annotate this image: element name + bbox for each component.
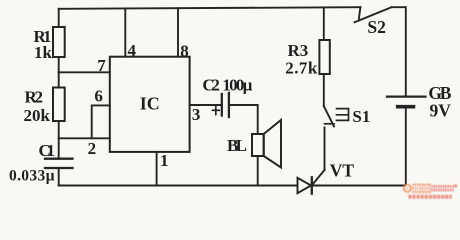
resistor R3 <box>319 7 329 106</box>
resistor R1 <box>53 9 65 73</box>
watermark bottom tiny line <box>408 195 452 199</box>
svg-text:2: 2 <box>88 139 97 158</box>
svg-text:VT: VT <box>330 160 355 180</box>
svg-text:R3: R3 <box>288 41 309 60</box>
svg-text:4: 4 <box>128 41 137 60</box>
watermark brand glyph white detail <box>413 184 431 193</box>
IC U1 box <box>110 57 190 152</box>
watermark brand glyph blob 1 <box>413 184 431 193</box>
wire: pin 7 net from R1/R2 junction to IC <box>59 71 110 73</box>
svg-text:C2: C2 <box>202 76 220 95</box>
wire: S2 to battery positive <box>392 7 406 95</box>
svg-text:S1: S1 <box>352 107 370 126</box>
svg-text:1: 1 <box>160 151 169 170</box>
resistor R2 <box>53 72 65 158</box>
svg-text:0.033µ: 0.033µ <box>9 167 55 184</box>
svg-text:100µ: 100µ <box>222 76 252 95</box>
battery GB <box>387 97 426 107</box>
watermark small red glyph white detail <box>431 185 453 191</box>
capacitor C1 <box>45 159 73 186</box>
switch S2 <box>355 7 392 22</box>
watermark small red glyphs <box>431 184 457 191</box>
svg-text:C1: C1 <box>39 141 56 160</box>
watermark logo circle <box>403 184 412 193</box>
wire: speaker to bottom rail <box>257 156 259 186</box>
thyristor VT <box>298 170 325 194</box>
svg-text:9V: 9V <box>430 101 452 121</box>
wire: pin 6 jumper down to pin 2 net <box>92 105 110 138</box>
wire: pin 4 from top rail <box>124 8 126 56</box>
speaker BL <box>252 120 281 168</box>
wire: pin 2 net from R2/C1 junction to IC <box>59 137 110 139</box>
wire: pin 3 to C2 <box>190 104 222 106</box>
svg-text:6: 6 <box>94 87 103 106</box>
svg-text:IC: IC <box>140 94 160 114</box>
svg-text:2.7k: 2.7k <box>285 58 318 77</box>
wire: bottom rail right from VT cathode to battery <box>312 185 406 187</box>
svg-text:7: 7 <box>97 56 106 75</box>
svg-text:20k: 20k <box>24 106 51 125</box>
wire: top rail from R1 top to S2 contact <box>59 7 361 9</box>
wire: C2 to speaker BL <box>229 105 258 134</box>
wire: pin 1 down to bottom rail <box>156 152 158 186</box>
svg-text:S2: S2 <box>367 17 385 37</box>
svg-text:BL: BL <box>227 136 247 155</box>
wire: bottom rail left from C1 to VT anode <box>59 185 298 187</box>
C2 polarity plus sign <box>213 106 220 115</box>
capacitor C2 electrolytic <box>222 93 229 117</box>
switch S1 <box>324 106 349 170</box>
svg-text:1k: 1k <box>34 43 53 62</box>
wire: battery negative to bottom rail <box>405 108 407 185</box>
svg-text:8: 8 <box>180 41 189 60</box>
wire: pin 8 from top rail <box>177 8 179 57</box>
svg-text:3: 3 <box>192 105 201 124</box>
svg-text:R2: R2 <box>25 88 44 107</box>
